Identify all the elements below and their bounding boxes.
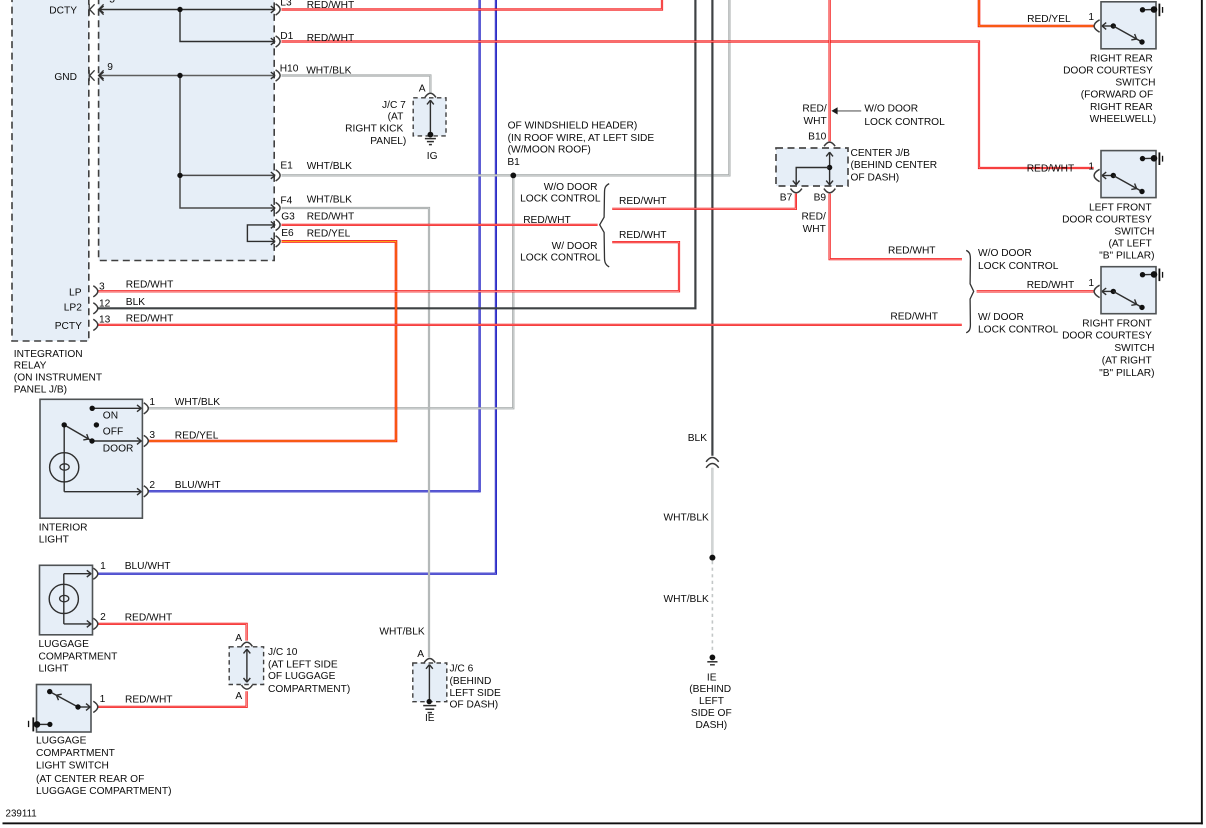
svg-text:LIGHT: LIGHT: [39, 664, 69, 675]
svg-text:RELAY: RELAY: [14, 361, 47, 372]
svg-text:BLU/WHT: BLU/WHT: [175, 480, 221, 491]
svg-text:3: 3: [149, 430, 155, 441]
svg-text:RED/WHT: RED/WHT: [890, 312, 938, 323]
svg-text:LOCK CONTROL: LOCK CONTROL: [520, 193, 601, 204]
svg-text:H10: H10: [280, 64, 299, 75]
svg-text:W/ DOOR: W/ DOOR: [552, 241, 598, 252]
svg-text:1: 1: [149, 397, 155, 408]
svg-text:1: 1: [100, 694, 106, 705]
svg-text:RED/WHT: RED/WHT: [619, 230, 667, 241]
svg-text:SWITCH: SWITCH: [1115, 78, 1155, 89]
svg-text:LOCK CONTROL: LOCK CONTROL: [864, 117, 945, 128]
svg-text:(AT CENTER REAR OF: (AT CENTER REAR OF: [36, 774, 144, 785]
svg-text:RED/YEL: RED/YEL: [175, 430, 219, 441]
svg-text:(BEHIND: (BEHIND: [450, 676, 492, 687]
svg-text:"B" PILLAR): "B" PILLAR): [1099, 251, 1154, 262]
svg-text:J/C 6: J/C 6: [450, 663, 474, 674]
svg-text:LUGGAGE COMPARTMENT): LUGGAGE COMPARTMENT): [36, 786, 171, 797]
svg-text:WHT/BLK: WHT/BLK: [664, 513, 709, 524]
svg-text:(AT: (AT: [388, 112, 404, 123]
svg-text:DOOR COURTESY: DOOR COURTESY: [1063, 66, 1153, 77]
svg-text:(ON INSTRUMENT: (ON INSTRUMENT: [14, 373, 102, 384]
svg-text:E1: E1: [280, 160, 293, 171]
svg-text:239111: 239111: [6, 808, 37, 819]
svg-text:2: 2: [149, 480, 155, 491]
svg-text:IE: IE: [425, 713, 435, 724]
svg-text:SWITCH: SWITCH: [1114, 343, 1154, 354]
svg-text:J/C 7: J/C 7: [382, 100, 406, 111]
svg-text:WHT/BLK: WHT/BLK: [379, 626, 424, 637]
svg-text:(AT LEFT: (AT LEFT: [1108, 238, 1151, 249]
svg-text:PANEL): PANEL): [370, 136, 406, 147]
svg-text:WHT: WHT: [803, 224, 826, 235]
svg-text:1: 1: [1088, 278, 1094, 289]
svg-text:1: 1: [100, 561, 106, 572]
svg-text:BLU/WHT: BLU/WHT: [125, 561, 171, 572]
svg-text:RED/WHT: RED/WHT: [1027, 164, 1075, 175]
svg-text:A: A: [419, 84, 426, 95]
svg-text:(AT LEFT SIDE: (AT LEFT SIDE: [268, 660, 338, 671]
svg-text:F4: F4: [280, 196, 292, 207]
svg-text:ON: ON: [103, 411, 118, 422]
svg-text:5: 5: [109, 0, 115, 6]
svg-text:A: A: [235, 633, 242, 644]
svg-text:RED/WHT: RED/WHT: [523, 215, 571, 226]
svg-text:LP2: LP2: [64, 303, 82, 314]
svg-text:OF DASH): OF DASH): [851, 172, 900, 183]
svg-text:1: 1: [1088, 162, 1094, 173]
svg-text:SWITCH: SWITCH: [1114, 226, 1154, 237]
svg-text:LOCK CONTROL: LOCK CONTROL: [978, 325, 1059, 336]
svg-text:J/C 10: J/C 10: [268, 647, 298, 658]
svg-text:A: A: [235, 691, 242, 702]
svg-text:DOOR: DOOR: [103, 443, 134, 454]
svg-text:LUGGAGE: LUGGAGE: [36, 736, 87, 747]
svg-text:9: 9: [107, 62, 113, 73]
svg-text:RED/WHT: RED/WHT: [125, 695, 173, 706]
svg-text:LOCK CONTROL: LOCK CONTROL: [520, 253, 601, 264]
svg-text:RED/WHT: RED/WHT: [126, 280, 174, 291]
svg-text:(W/MOON ROOF): (W/MOON ROOF): [508, 145, 591, 156]
svg-text:12: 12: [99, 299, 111, 310]
svg-text:LEFT: LEFT: [699, 696, 724, 707]
svg-text:WHT/BLK: WHT/BLK: [306, 66, 351, 77]
svg-text:(AT RIGHT: (AT RIGHT: [1102, 356, 1152, 367]
svg-text:LP: LP: [69, 287, 82, 298]
svg-text:W/O DOOR: W/O DOOR: [544, 182, 598, 193]
svg-text:LEFT SIDE: LEFT SIDE: [450, 688, 502, 699]
svg-text:1: 1: [1088, 12, 1094, 23]
svg-text:WHT/BLK: WHT/BLK: [664, 594, 709, 605]
svg-text:RED/WHT: RED/WHT: [888, 245, 936, 256]
svg-text:OF LUGGAGE: OF LUGGAGE: [268, 671, 336, 682]
svg-text:L3: L3: [280, 0, 292, 9]
svg-text:WHT/BLK: WHT/BLK: [307, 195, 352, 206]
svg-text:W/O DOOR: W/O DOOR: [978, 248, 1032, 259]
svg-text:WHEELWELL): WHEELWELL): [1090, 114, 1157, 125]
svg-text:LEFT FRONT: LEFT FRONT: [1089, 203, 1152, 214]
svg-text:DOOR COURTESY: DOOR COURTESY: [1062, 215, 1152, 226]
svg-text:"B" PILLAR): "B" PILLAR): [1099, 368, 1154, 379]
svg-text:3: 3: [99, 282, 105, 293]
svg-text:RED/YEL: RED/YEL: [1027, 14, 1071, 25]
svg-text:B7: B7: [780, 193, 793, 204]
svg-text:RED/WHT: RED/WHT: [307, 0, 355, 11]
svg-text:OF DASH): OF DASH): [450, 700, 499, 711]
svg-text:WHT: WHT: [803, 116, 826, 127]
svg-text:RIGHT KICK: RIGHT KICK: [345, 124, 403, 135]
svg-text:RED/WHT: RED/WHT: [126, 313, 174, 324]
svg-text:W/O DOOR: W/O DOOR: [864, 104, 918, 115]
svg-text:LOCK CONTROL: LOCK CONTROL: [978, 261, 1059, 272]
svg-text:SIDE OF: SIDE OF: [691, 708, 732, 719]
svg-text:(BEHIND: (BEHIND: [689, 684, 731, 695]
svg-text:DCTY: DCTY: [49, 5, 77, 16]
svg-text:INTERIOR: INTERIOR: [39, 522, 88, 533]
svg-text:B10: B10: [808, 132, 826, 143]
svg-text:RIGHT FRONT: RIGHT FRONT: [1082, 318, 1151, 329]
svg-text:IG: IG: [427, 151, 438, 162]
svg-text:RIGHT REAR: RIGHT REAR: [1090, 54, 1153, 65]
svg-text:DOOR COURTESY: DOOR COURTESY: [1062, 331, 1152, 342]
svg-text:LIGHT SWITCH: LIGHT SWITCH: [36, 761, 109, 772]
svg-text:COMPARTMENT: COMPARTMENT: [39, 652, 118, 663]
svg-text:BLK: BLK: [688, 433, 707, 444]
svg-text:COMPARTMENT: COMPARTMENT: [36, 748, 115, 759]
svg-text:RIGHT REAR: RIGHT REAR: [1090, 102, 1153, 113]
svg-text:B9: B9: [814, 193, 827, 204]
svg-text:WHT/BLK: WHT/BLK: [307, 161, 352, 172]
svg-text:CENTER J/B: CENTER J/B: [851, 148, 911, 159]
svg-text:OFF: OFF: [103, 427, 123, 438]
svg-text:B1: B1: [507, 157, 520, 168]
svg-text:(FORWARD OF: (FORWARD OF: [1081, 90, 1153, 101]
svg-text:RED/: RED/: [801, 212, 826, 223]
svg-text:(BEHIND CENTER: (BEHIND CENTER: [851, 160, 938, 171]
svg-text:RED/WHT: RED/WHT: [307, 33, 355, 44]
svg-text:BLK: BLK: [126, 297, 145, 308]
svg-text:DASH): DASH): [695, 720, 727, 731]
svg-text:2: 2: [100, 612, 106, 623]
svg-text:G3: G3: [281, 212, 295, 223]
svg-text:IE: IE: [707, 673, 717, 684]
svg-text:PCTY: PCTY: [55, 321, 82, 332]
svg-text:OF WINDSHIELD HEADER): OF WINDSHIELD HEADER): [508, 120, 638, 131]
svg-text:13: 13: [99, 314, 111, 325]
svg-text:RED/WHT: RED/WHT: [1027, 280, 1075, 291]
svg-text:A: A: [417, 649, 424, 660]
svg-text:RED/WHT: RED/WHT: [125, 612, 173, 623]
svg-text:COMPARTMENT): COMPARTMENT): [268, 684, 350, 695]
svg-text:RED/WHT: RED/WHT: [307, 212, 355, 223]
svg-text:RED/YEL: RED/YEL: [307, 228, 351, 239]
svg-text:D1: D1: [280, 31, 293, 42]
svg-text:(IN ROOF WIRE, AT LEFT SIDE: (IN ROOF WIRE, AT LEFT SIDE: [508, 133, 655, 144]
svg-text:GND: GND: [54, 72, 77, 83]
svg-text:WHT/BLK: WHT/BLK: [175, 397, 220, 408]
svg-text:RED/: RED/: [802, 103, 827, 114]
svg-text:PANEL J/B): PANEL J/B): [14, 385, 67, 396]
svg-text:W/ DOOR: W/ DOOR: [978, 312, 1024, 323]
svg-text:E6: E6: [281, 228, 294, 239]
svg-text:INTEGRATION: INTEGRATION: [14, 349, 83, 360]
svg-text:LUGGAGE: LUGGAGE: [39, 639, 90, 650]
svg-text:RED/WHT: RED/WHT: [619, 196, 667, 207]
svg-text:LIGHT: LIGHT: [39, 534, 69, 545]
